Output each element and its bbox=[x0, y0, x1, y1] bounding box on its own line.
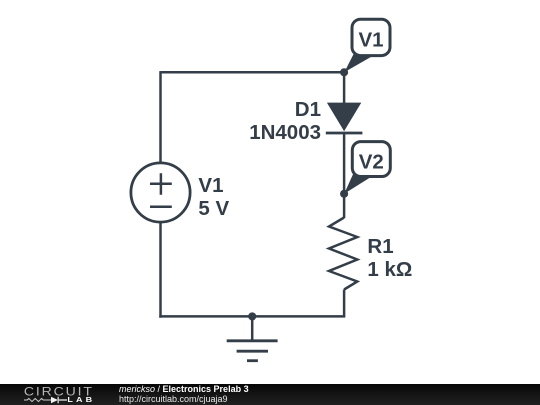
svg-text:V1: V1 bbox=[358, 29, 383, 52]
wire resistor bottom to bottom wire bbox=[343, 290, 346, 317]
svg-text:LAB: LAB bbox=[67, 396, 95, 404]
node flag V1 pointer bbox=[344, 49, 371, 73]
svg-text:V2: V2 bbox=[359, 151, 384, 174]
node flag V2 box bbox=[352, 142, 390, 177]
CircuitLab logo bbox=[0, 384, 110, 405]
wire bottom horizontal bbox=[159, 315, 345, 318]
wire left vertical lower (V1 bottom to bottom wire) bbox=[159, 222, 162, 318]
svg-text:1 kΩ: 1 kΩ bbox=[367, 258, 412, 281]
credit text bbox=[119, 384, 249, 405]
node flag V2 pointer bbox=[344, 170, 370, 194]
svg-text:R1: R1 bbox=[367, 235, 393, 258]
label V1 value text bbox=[198, 174, 229, 220]
diode D1 bbox=[326, 103, 363, 133]
wire left vertical upper (V1 top to top wire) bbox=[159, 71, 162, 163]
wire diode cathode to node V2 bbox=[343, 133, 346, 194]
svg-text:5 V: 5 V bbox=[198, 197, 229, 220]
wire right vertical from node V1 to diode anode bbox=[343, 72, 346, 103]
svg-text:1N4003: 1N4003 bbox=[249, 121, 321, 144]
node junction dot at V2 net bbox=[340, 190, 348, 198]
resistor R1 zigzag bbox=[329, 218, 357, 290]
ground symbol bbox=[227, 316, 278, 360]
label R1 value text bbox=[367, 235, 412, 281]
node junction dot at ground net bbox=[248, 312, 256, 320]
svg-text:V1: V1 bbox=[198, 174, 223, 197]
voltage source V1 circle bbox=[131, 163, 190, 222]
node flag V1 box bbox=[352, 19, 390, 55]
wire top horizontal from V1 source to diode branch bbox=[161, 71, 345, 74]
node junction dot at V1 net bbox=[340, 68, 348, 76]
wire node V2 to resistor top bbox=[343, 194, 346, 218]
svg-text:D1: D1 bbox=[295, 98, 321, 121]
label D1 value text bbox=[249, 98, 321, 144]
